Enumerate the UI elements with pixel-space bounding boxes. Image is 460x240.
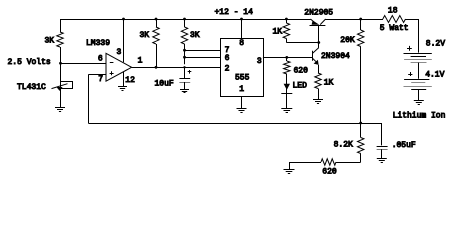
diode LED D1 bbox=[284, 84, 290, 90]
resistor R5 1K bbox=[283, 23, 289, 39]
wire inverting input from 2.5V node bbox=[60, 63, 106, 65]
svg-text:+12 - 14: +12 - 14 bbox=[215, 8, 254, 17]
capacitor C2 .05uF plates bbox=[377, 146, 388, 148]
wire R2 bottom to output line bbox=[156, 44, 158, 67]
wire 555 pin 6 line bbox=[185, 57, 221, 59]
svg-text:1K: 1K bbox=[273, 27, 283, 36]
wire 555 pin 1 ground stub bbox=[241, 97, 243, 109]
wire pin 3 V+ stub to rail bbox=[123, 19, 125, 62]
wire .05uF bottom stub bbox=[381, 149, 383, 158]
svg-text:10uF: 10uF bbox=[155, 79, 174, 88]
resistor R10 620 horizontal bbox=[321, 159, 336, 165]
wire 2N2905 collector top segment to battery bbox=[325, 19, 383, 21]
svg-text:8.2V: 8.2V bbox=[426, 40, 445, 49]
node divider junction bbox=[359, 122, 362, 125]
svg-text:20K: 20K bbox=[340, 36, 355, 45]
svg-text:12: 12 bbox=[125, 76, 135, 85]
plus sign noninverting input bbox=[110, 73, 114, 75]
node R2 output junction bbox=[155, 66, 158, 69]
wire 620 to ground corner bbox=[289, 162, 321, 164]
wire left rail down from top corner bbox=[60, 19, 62, 32]
node 2.5 Volts junction bbox=[59, 62, 62, 65]
wire battery mid tap bbox=[418, 63, 420, 79]
ground op-amp pin 12 bbox=[118, 86, 127, 88]
node 10uF junction bbox=[183, 66, 185, 68]
wire battery to ground bbox=[418, 90, 420, 101]
svg-text:1K: 1K bbox=[324, 79, 334, 88]
svg-text:2.5 Volts: 2.5 Volts bbox=[8, 58, 51, 67]
node rail junction 1K bbox=[285, 18, 288, 21]
svg-text:3: 3 bbox=[117, 48, 122, 57]
node collector rail junction 20K bbox=[359, 18, 362, 21]
svg-text:6: 6 bbox=[225, 54, 230, 63]
node base junction bbox=[317, 41, 320, 44]
svg-text:555: 555 bbox=[235, 74, 250, 83]
capacitor C1 10uF plates bbox=[179, 78, 190, 80]
capacitor C1 10uF plus sign bbox=[188, 71, 192, 73]
minus sign inverting input bbox=[110, 62, 114, 64]
node rail junction 3K third bbox=[183, 18, 186, 21]
svg-text:8: 8 bbox=[239, 39, 244, 48]
wire 8.2K bottom corner bbox=[360, 154, 362, 163]
wire pin 12 ground stub bbox=[123, 72, 125, 86]
wire 555 pin 7 line bbox=[185, 50, 221, 52]
node pin7 junction bbox=[183, 49, 186, 52]
svg-text:2N2905: 2N2905 bbox=[304, 9, 333, 18]
wire 3K second top stub bbox=[156, 19, 158, 27]
svg-text:2N3904: 2N3904 bbox=[321, 52, 350, 61]
wire LED to ground bbox=[286, 93, 288, 108]
svg-text:LM339: LM339 bbox=[86, 39, 110, 48]
node pin6 junction bbox=[183, 56, 186, 59]
resistor R4 620 bbox=[284, 61, 290, 74]
svg-text:3K: 3K bbox=[140, 31, 150, 40]
ground 620 bottom bbox=[284, 169, 295, 171]
transistor Q2 collector bbox=[313, 48, 319, 54]
resistor R3 3K middle-right bbox=[181, 27, 187, 44]
wire R3 bottom to pins 7/6 bbox=[184, 44, 186, 64]
svg-text:18: 18 bbox=[388, 7, 398, 16]
svg-text:Lithium Ion: Lithium Ion bbox=[393, 111, 446, 120]
svg-text:2: 2 bbox=[225, 64, 230, 73]
wire 3K third top stub bbox=[184, 19, 186, 27]
resistor R1 3K left bbox=[57, 32, 63, 47]
svg-text:620: 620 bbox=[322, 168, 337, 177]
wire 10uF top stub bbox=[184, 67, 186, 78]
transistor Q2 2N3904 base bar bbox=[312, 51, 314, 61]
wire 8.2K top stub bbox=[360, 123, 362, 138]
transistor Q1 2N2905 emitter bbox=[311, 19, 317, 24]
resistor R9 8.2K bbox=[358, 138, 364, 154]
ground LED bbox=[281, 108, 292, 110]
ground 10uF bbox=[180, 89, 189, 91]
svg-text:620: 620 bbox=[294, 67, 309, 76]
battery plus top bbox=[407, 48, 412, 50]
wire op-amp output to 555 pin 2 bbox=[132, 67, 221, 69]
wire 555 pin 8 stub to rail bbox=[241, 19, 243, 38]
wire 1K to ground bbox=[318, 89, 320, 100]
resistor R8 18 ohm 5 Watt bbox=[383, 16, 406, 23]
svg-text:TL431C: TL431C bbox=[17, 83, 46, 92]
node pin3 rail junction bbox=[122, 18, 125, 21]
wire TL431 anode to ground bbox=[60, 88, 62, 107]
svg-text:8.2K: 8.2K bbox=[334, 141, 353, 150]
svg-text:.05uF: .05uF bbox=[392, 141, 416, 150]
ground .05uF bbox=[377, 158, 387, 160]
wire feedback bottom horizontal bbox=[88, 123, 382, 125]
wire Q2 emitter to 1K bbox=[318, 65, 320, 73]
resistor R6 1K emitter bbox=[315, 73, 321, 89]
op-amp U1 LM339 triangle bbox=[106, 53, 132, 81]
transistor Q1 base bar bbox=[310, 25, 326, 27]
wire 620 to LED bbox=[286, 74, 288, 93]
ground TL431 bbox=[55, 107, 65, 109]
wire feedback left vertical bbox=[88, 75, 90, 123]
wire pin 7 noninverting input bbox=[88, 74, 106, 76]
wire 1K bottom corner bbox=[286, 39, 288, 43]
wire 620 top stub bbox=[286, 57, 288, 61]
IC U2 555 timer box bbox=[221, 39, 264, 97]
component TL431C shunt regulator bbox=[61, 82, 73, 89]
svg-text:1: 1 bbox=[138, 57, 143, 66]
svg-text:1: 1 bbox=[239, 85, 244, 94]
wire 1K top stub bbox=[286, 19, 288, 23]
svg-text:4.1V: 4.1V bbox=[425, 70, 444, 79]
battery B1 lower cell plates bbox=[404, 79, 429, 81]
node pin8 rail junction bbox=[240, 18, 243, 21]
wire 20K down to divider junction bbox=[360, 47, 362, 124]
wire R1 bottom to 2.5V node bbox=[60, 47, 62, 63]
ground battery bbox=[414, 100, 424, 102]
svg-text:3K: 3K bbox=[190, 31, 200, 40]
wire 2.5V node to TL431 cathode bbox=[60, 63, 62, 81]
svg-text:3K: 3K bbox=[45, 37, 55, 46]
transistor Q2 emitter bbox=[313, 58, 318, 62]
node rail junction 3K second bbox=[155, 18, 158, 21]
svg-text:6: 6 bbox=[98, 55, 103, 64]
resistor R7 20K bbox=[358, 30, 364, 47]
battery B1 upper cell plates bbox=[404, 53, 432, 55]
wire +12V top rail left segment bbox=[60, 19, 311, 21]
wire .05uF top stub bbox=[381, 123, 383, 145]
wire 555 pin 3 output line bbox=[263, 57, 313, 59]
svg-text:3: 3 bbox=[257, 57, 262, 66]
wire 18 ohm to battery corner bbox=[406, 19, 419, 21]
wire 20K top stub bbox=[360, 19, 362, 30]
svg-text:LED: LED bbox=[293, 81, 308, 90]
battery plus mid bbox=[408, 74, 412, 76]
resistor R2 3K middle-left bbox=[153, 27, 159, 44]
wire Q1 base stem bbox=[318, 25, 320, 43]
node output junction 620/LED bbox=[285, 56, 288, 59]
svg-text:5 Watt: 5 Watt bbox=[380, 24, 409, 33]
ground R6 1K bbox=[313, 99, 323, 101]
wire 10uF bottom stub bbox=[184, 82, 186, 89]
svg-text:7: 7 bbox=[98, 75, 103, 84]
transistor Q1 collector bbox=[320, 19, 325, 25]
ground 555 pin 1 bbox=[237, 108, 247, 110]
